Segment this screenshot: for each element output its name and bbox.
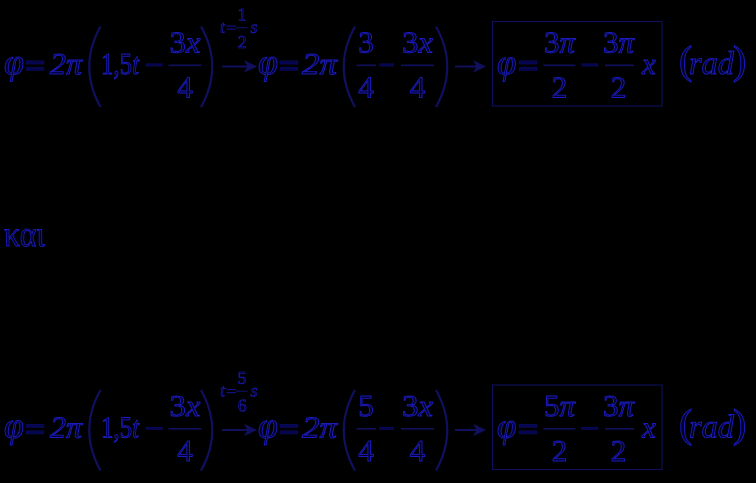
svg-text:φ: φ — [258, 42, 278, 82]
svg-text:2: 2 — [552, 70, 568, 105]
svg-text:2: 2 — [238, 32, 247, 52]
svg-text:4: 4 — [177, 70, 193, 105]
svg-text:φ: φ — [497, 43, 516, 82]
svg-text:rad: rad — [689, 46, 734, 82]
svg-text:2π: 2π — [50, 410, 84, 445]
svg-text:5: 5 — [238, 368, 247, 388]
svg-text:): ) — [733, 401, 746, 446]
svg-text:1: 1 — [238, 5, 247, 25]
svg-text:5π: 5π — [544, 388, 576, 423]
svg-text:4: 4 — [358, 70, 374, 105]
svg-text:): ) — [733, 38, 746, 83]
svg-text:5: 5 — [358, 388, 374, 423]
svg-text:2π: 2π — [50, 46, 84, 81]
svg-text:3: 3 — [358, 25, 374, 60]
svg-text:φ: φ — [4, 406, 24, 446]
svg-text:φ: φ — [497, 407, 516, 446]
svg-text:3π: 3π — [544, 25, 576, 60]
svg-text:3x: 3x — [402, 388, 433, 423]
svg-text:s: s — [251, 381, 258, 401]
svg-text:2: 2 — [552, 433, 568, 468]
svg-text:4: 4 — [410, 70, 426, 105]
svg-text:3x: 3x — [170, 25, 201, 60]
svg-text:s: s — [251, 17, 258, 37]
svg-text:1,5t: 1,5t — [101, 410, 140, 445]
svg-text:3x: 3x — [170, 388, 201, 423]
svg-text:4: 4 — [358, 433, 374, 468]
svg-text:φ: φ — [258, 406, 278, 446]
svg-text:και: και — [4, 214, 45, 254]
svg-text:3π: 3π — [603, 388, 635, 423]
svg-text:x: x — [641, 410, 656, 445]
svg-text:4: 4 — [410, 433, 426, 468]
svg-text:x: x — [641, 46, 656, 81]
svg-text:3x: 3x — [402, 25, 433, 60]
svg-text:2π: 2π — [302, 410, 339, 445]
svg-text:rad: rad — [689, 410, 734, 446]
svg-text:2: 2 — [611, 70, 627, 105]
svg-text:2π: 2π — [302, 46, 339, 81]
svg-text:1,5t: 1,5t — [101, 46, 140, 81]
svg-text:2: 2 — [611, 433, 627, 468]
svg-text:φ: φ — [4, 42, 24, 82]
svg-text:6: 6 — [238, 396, 247, 416]
svg-text:3π: 3π — [603, 25, 635, 60]
svg-text:4: 4 — [177, 433, 193, 468]
